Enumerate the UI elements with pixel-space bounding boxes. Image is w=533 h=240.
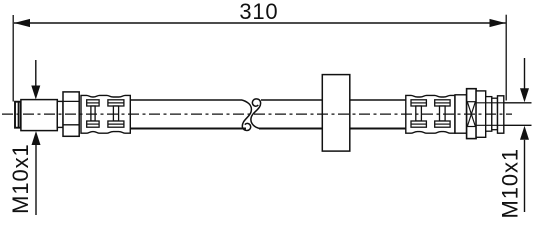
left fitting: hex flat line top <box>63 100 79 102</box>
left sleeve crimp groove 1 column <box>91 106 95 121</box>
left fitting: tube end <box>15 102 21 128</box>
dimension 310 arrowhead right <box>490 19 506 27</box>
right M10x1 down arrow <box>524 58 526 89</box>
left fitting: neck relief <box>57 101 63 127</box>
diameter extension line bottom right <box>504 124 532 126</box>
mounting collar <box>322 75 350 152</box>
diameter extension line top right <box>504 102 532 104</box>
right sleeve crimp groove 2 column <box>440 106 446 121</box>
left fitting: tube end inner line <box>18 102 20 128</box>
svg-text:M10x1: M10x1 <box>498 148 523 219</box>
left sleeve crimp groove 1 top flange <box>87 100 99 106</box>
centerline <box>2 113 512 115</box>
hose bottom line segments <box>130 128 246 130</box>
left sleeve crimp groove 1 bottom flange <box>87 121 99 127</box>
left sleeve crimp groove 2 column <box>113 106 118 121</box>
dimension 310 extension line left <box>12 15 14 102</box>
hose break symbol right curve <box>251 99 261 128</box>
right fitting: thread root lines <box>476 102 504 104</box>
right sleeve crimp groove 1 bottom flange <box>411 121 426 127</box>
right sleeve crimp groove 1 top flange <box>411 100 426 106</box>
left sleeve crimp groove 2 bottom flange <box>108 121 124 127</box>
right fitting: thread root section <box>492 98 498 130</box>
right fitting: washer body <box>476 91 486 137</box>
left M10x1 up arrow <box>35 145 37 215</box>
right sleeve crimp groove 2 bottom flange <box>435 121 450 127</box>
right fitting: socket collar <box>455 95 467 133</box>
svg-text:M10x1: M10x1 <box>8 143 33 214</box>
right sleeve crimp groove 2 top flange <box>435 100 450 106</box>
left fitting: threaded body M10 <box>21 100 57 131</box>
right fitting: end flange <box>498 96 504 133</box>
left sleeve crimp groove 2 top flange <box>108 100 124 106</box>
right fitting: block with cross <box>467 89 477 139</box>
left fitting: hex nut <box>63 92 79 136</box>
right M10x1 up arrow <box>524 140 526 212</box>
svg-text:310: 310 <box>239 0 278 24</box>
left crimp sleeve outline <box>81 95 130 133</box>
left fitting: hex flat line bottom <box>63 124 79 126</box>
dimension 310 arrowhead left <box>14 19 30 27</box>
right fitting: thread crest section <box>486 97 492 132</box>
right crimp sleeve outline <box>406 95 455 133</box>
left M10x1 down arrow <box>35 60 37 86</box>
dimension 310 extension line right <box>505 15 507 101</box>
hose top line segments <box>130 99 242 101</box>
right fitting: cross cell lines <box>467 101 477 103</box>
right sleeve crimp groove 1 column <box>416 106 422 121</box>
hose break symbol left curve <box>242 100 251 130</box>
dimension 310 line <box>14 22 506 24</box>
right fitting: cross X <box>467 102 475 127</box>
